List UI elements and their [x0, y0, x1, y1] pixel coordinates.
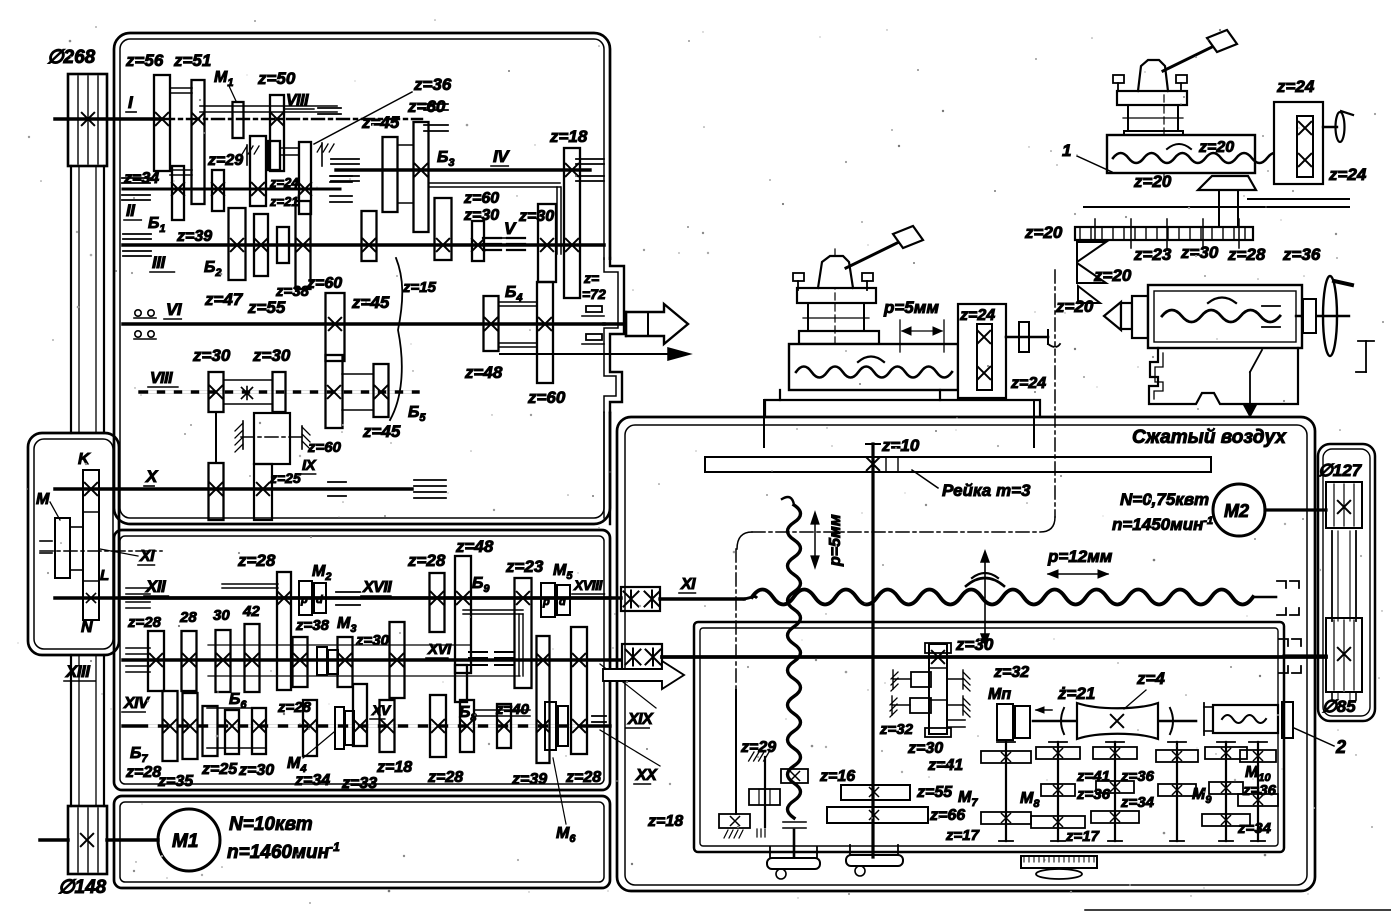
worm wheel box	[1213, 705, 1278, 733]
svg-text:z=45: z=45	[351, 293, 390, 312]
shaft XIX long	[662, 655, 1326, 659]
svg-text:d: d	[316, 594, 323, 606]
svg-text:Мп: Мп	[988, 686, 1011, 703]
gear stem 3	[1114, 742, 1116, 841]
scan speckles	[886, 29, 887, 30]
carriage 1 top plate	[797, 288, 876, 303]
svg-text:z=20: z=20	[1055, 297, 1094, 316]
svg-text:z=24: z=24	[1276, 77, 1315, 96]
tailstock screw	[1162, 310, 1280, 322]
toothed rack foot	[1021, 856, 1097, 868]
svg-text:=72: =72	[582, 286, 606, 302]
gear z=28 XIV r	[430, 695, 446, 757]
svg-text:K: K	[78, 451, 91, 468]
svg-text:d: d	[559, 596, 566, 608]
gear on V b	[472, 221, 484, 261]
flag bracket c	[1078, 286, 1100, 303]
gear z=40	[497, 704, 511, 748]
gear z=24 vertical	[977, 324, 992, 390]
leadscrew	[752, 590, 1253, 605]
gear X b	[254, 464, 272, 520]
vertical arrow through leadscrew	[984, 556, 986, 640]
mesh lines z24-z36	[281, 147, 299, 149]
gear B1 block	[212, 170, 224, 211]
carriage 1 centerline	[834, 249, 836, 346]
coupling VIII right	[342, 373, 373, 375]
vertical dash-dot to upper rack	[1054, 270, 1056, 517]
gear z=29 tall	[250, 136, 266, 206]
gear B2 block b	[254, 214, 268, 276]
svg-text:z=33: z=33	[341, 775, 377, 792]
shaft XVI	[123, 658, 621, 661]
gear z=45 on III	[362, 211, 377, 261]
vertical feed line	[735, 549, 737, 690]
svg-text:z=4: z=4	[1136, 669, 1165, 688]
svg-text:z=38: z=38	[295, 617, 330, 634]
gear z=28 slider XII	[277, 572, 291, 690]
gear X a	[209, 463, 224, 520]
shaft IV	[336, 168, 590, 171]
shaft XII	[55, 596, 610, 600]
gearbox z=24 frame	[958, 304, 1006, 398]
shaft I end marks	[424, 103, 448, 105]
svg-text:z=28: z=28	[127, 614, 162, 631]
hatch wall right	[321, 143, 323, 166]
clutch M6	[545, 702, 556, 750]
svg-text:z=32: z=32	[993, 664, 1029, 681]
gear z=28 XIV	[203, 706, 218, 756]
carriage 2 bolts	[1113, 75, 1124, 83]
gear stem M10	[1257, 742, 1259, 841]
gear z=18	[564, 148, 580, 298]
spindle nose cone	[626, 304, 688, 344]
slider rail IV	[429, 182, 560, 184]
motor M2	[1213, 484, 1265, 536]
svg-text:z=28: z=28	[565, 769, 601, 786]
apron gear frame	[694, 622, 1284, 852]
shaft VI chain symbols	[135, 310, 141, 316]
svg-text:z=45: z=45	[362, 422, 401, 441]
svg-text:n=1460мин-1: n=1460мин-1	[227, 840, 340, 863]
gear B7 b	[183, 693, 198, 759]
gear z=30 b	[273, 372, 286, 412]
shaft V gap marks	[483, 237, 501, 239]
coupling VIII	[224, 379, 272, 381]
svg-text:z=36: z=36	[1076, 786, 1111, 803]
carriage 1 screw	[796, 367, 952, 378]
gear z=36 slider	[299, 142, 311, 214]
tailstock screw end marks	[1262, 305, 1280, 307]
svg-text:z=55: z=55	[247, 298, 286, 317]
svg-text:z=29: z=29	[207, 152, 243, 169]
gear B4 a	[484, 296, 499, 351]
belt right	[1331, 531, 1333, 621]
leadscrew nut arcs	[966, 578, 1004, 586]
pulley ø148	[68, 806, 107, 874]
svg-text:z=23: z=23	[1133, 245, 1172, 264]
gear B2 block a	[229, 208, 246, 280]
svg-text:z=28: z=28	[1227, 245, 1266, 264]
svg-text:III: III	[152, 253, 166, 272]
hatch wall left	[246, 145, 248, 165]
svg-text:XVI: XVI	[427, 641, 452, 658]
svg-text:z=23: z=23	[505, 557, 544, 576]
clutch M3	[317, 647, 327, 675]
svg-text:z=30: z=30	[955, 635, 994, 654]
svg-text:z=30: z=30	[238, 762, 274, 779]
svg-text:z=30: z=30	[518, 208, 554, 225]
svg-text:VIII: VIII	[286, 92, 309, 109]
gear z=16 bar	[781, 769, 808, 783]
svg-text:z=36: z=36	[1120, 768, 1155, 785]
clutch M5	[541, 583, 555, 617]
arrow p=12	[1048, 573, 1108, 575]
svg-text:z=30: z=30	[1180, 243, 1219, 262]
gear z=30 XIV	[252, 708, 266, 754]
clutch Mp	[997, 704, 1013, 740]
svg-text:z=45: z=45	[361, 113, 400, 132]
gear 28 XVI b	[182, 631, 197, 691]
B6 coupling rails	[207, 707, 266, 709]
svg-text:z=39: z=39	[176, 228, 212, 245]
svg-text:28: 28	[179, 609, 197, 626]
gear stem 5	[1225, 742, 1227, 841]
svg-text:XIX: XIX	[627, 711, 654, 728]
svg-text:z=18: z=18	[549, 127, 588, 146]
svg-text:z=28: z=28	[237, 551, 276, 570]
stack caps	[925, 643, 951, 653]
air pipe hook	[1358, 340, 1374, 342]
svg-text:IX: IX	[302, 457, 317, 474]
arrow into Mp	[1036, 709, 1052, 711]
svg-text:M: M	[36, 491, 50, 508]
carriage 2 handle grip	[1207, 30, 1237, 52]
belt stub below	[1331, 692, 1333, 700]
svg-text:IV: IV	[493, 147, 510, 166]
svg-text:z=28: z=28	[427, 769, 463, 786]
svg-text:VIII: VIII	[150, 370, 173, 387]
rail B8	[474, 709, 530, 711]
carriage 1 tool post	[818, 256, 853, 288]
shaft III	[123, 243, 604, 247]
bevel bracket left b	[910, 698, 931, 713]
svg-text:z=41: z=41	[927, 757, 963, 774]
gear 30 XVI	[216, 630, 231, 692]
svg-text:z=38: z=38	[275, 283, 310, 300]
gear stem M8 left	[1005, 742, 1007, 841]
gear z=18 XIV	[380, 700, 395, 752]
svg-text:N=0,75квт: N=0,75квт	[1120, 490, 1209, 509]
carriage 1 handle grip	[893, 226, 923, 248]
gear B8	[460, 700, 474, 752]
svg-text:z=20: z=20	[1093, 266, 1132, 285]
carriage 1 bolts	[793, 273, 804, 281]
svg-text:z=: z=	[583, 270, 599, 286]
carriage 2 centerline	[1163, 95, 1165, 178]
arrow p=5 vertical	[814, 514, 816, 566]
svg-text:z=30: z=30	[355, 632, 390, 649]
shaft stub to M1	[40, 838, 68, 842]
carriage 1 mid plate	[799, 331, 879, 344]
shaft VI	[123, 322, 604, 326]
svg-text:1: 1	[1062, 141, 1071, 160]
shaft XIV	[123, 724, 610, 727]
carriage 1 body	[789, 344, 958, 390]
belt to K-box	[70, 166, 72, 433]
svg-text:z=25: z=25	[269, 470, 301, 486]
spindle bearing marks	[586, 306, 602, 312]
svg-text:z=34: z=34	[123, 170, 159, 187]
rack pinion ticks	[885, 457, 887, 472]
svg-text:z=30: z=30	[463, 207, 499, 224]
svg-text:∅148: ∅148	[58, 877, 107, 898]
gear z=28 XVI a	[148, 631, 164, 691]
gear z=28 XVII	[430, 573, 445, 632]
svg-text:z=24: z=24	[1328, 165, 1367, 184]
vertical leadscrew p=5	[788, 505, 801, 818]
gear M	[55, 518, 70, 578]
svg-text:z=30: z=30	[192, 346, 231, 365]
rack bar	[705, 457, 1211, 472]
gear XVI right a	[455, 665, 467, 702]
flag bracket a	[1077, 242, 1106, 262]
svg-text:M1: M1	[172, 831, 198, 852]
tailstock center cone	[1104, 302, 1121, 330]
svg-text:z=32: z=32	[879, 721, 914, 738]
gear z=55 bar	[841, 785, 910, 800]
gear K-N block	[83, 470, 99, 620]
svg-text:z=24: z=24	[269, 175, 299, 190]
gear z=47	[296, 201, 311, 289]
gear z=34	[172, 166, 184, 220]
svg-text:XVII: XVII	[362, 579, 392, 596]
tailstock body	[1148, 285, 1302, 348]
gear z=24 small	[268, 141, 280, 170]
right pulley frame	[1318, 444, 1375, 721]
svg-text:z=24: z=24	[1010, 375, 1046, 392]
svg-text:z=16: z=16	[819, 768, 855, 785]
svg-text:z=30: z=30	[907, 740, 943, 757]
svg-text:2: 2	[1335, 737, 1346, 757]
svg-text:XI: XI	[680, 576, 696, 593]
gear z=50	[270, 95, 284, 171]
shaft I	[55, 117, 162, 121]
svg-text:XIII: XIII	[65, 662, 91, 681]
shaft M2 to pulley	[1265, 508, 1326, 511]
svg-text:z=28: z=28	[277, 699, 312, 716]
svg-text:z=34: z=34	[1237, 820, 1272, 837]
gear z=23	[515, 578, 532, 688]
svg-text:L: L	[100, 567, 109, 584]
carriage 2 posts	[1127, 105, 1129, 131]
shaft XI centerline	[40, 550, 162, 552]
svg-text:z=20: z=20	[1198, 139, 1234, 156]
gear z=60 IX block	[254, 413, 290, 464]
halfnut marks upper	[1277, 581, 1286, 588]
carriage 2 body	[1107, 135, 1255, 173]
svg-text:р: р	[542, 596, 550, 608]
XIV right marks	[592, 715, 606, 717]
shaft into pulley ø85	[1284, 654, 1326, 657]
left cluster z=29	[764, 757, 766, 827]
coupling z45-z60	[398, 144, 413, 146]
shaft VIII end marks	[318, 107, 341, 109]
svg-text:N=10квт: N=10квт	[229, 814, 313, 835]
shift rail XII right	[463, 609, 523, 611]
hollow arrow	[603, 661, 684, 689]
carriage 1 clamp lines	[763, 400, 765, 447]
carriage 1 posts	[807, 303, 809, 331]
vertical shaft of rack pinion	[871, 444, 874, 857]
svg-text:p=12мм: p=12мм	[1047, 547, 1113, 566]
gear z=66 bar	[827, 807, 928, 823]
svg-text:VI: VI	[166, 300, 183, 319]
brace	[390, 258, 402, 420]
svg-text:z=34: z=34	[1120, 794, 1155, 811]
gear z=30 XVI	[338, 637, 353, 687]
svg-text:ż=21: ż=21	[1057, 684, 1095, 703]
wavy shaft stub	[793, 830, 796, 857]
gear 42 XVI	[245, 624, 260, 692]
carriage 2 top plate	[1117, 91, 1187, 105]
clutch M4	[335, 707, 344, 749]
svg-text:z=56: z=56	[125, 51, 164, 70]
reversing box frame	[28, 433, 119, 655]
gear z=56	[154, 75, 170, 171]
svg-text:z=39: z=39	[511, 771, 547, 788]
shaft VIII	[140, 390, 418, 393]
carriage 2 clamp lines	[1218, 190, 1220, 227]
gear z=51 block	[192, 80, 205, 204]
shaft II	[123, 188, 340, 191]
foot rack shaft	[846, 855, 903, 866]
feed gearbox frame	[114, 530, 610, 790]
svg-text:z=28: z=28	[125, 764, 161, 781]
M gear left marks	[40, 540, 52, 542]
carriage 1 saddle	[765, 390, 780, 417]
svg-text:z=18: z=18	[647, 813, 683, 830]
svg-text:z=60: z=60	[527, 388, 566, 407]
bed bottom right line	[1085, 909, 1391, 911]
foot wavy shaft	[767, 858, 820, 869]
gear z=60 on IV	[414, 122, 429, 232]
svg-text:z=35: z=35	[157, 773, 194, 790]
svg-text:z=40: z=40	[495, 701, 530, 718]
shaft X mid marks	[328, 481, 346, 483]
gear XVI mid	[390, 622, 405, 698]
gearbox z=24 frame 2	[1274, 102, 1323, 184]
carriage 1 nut arc	[858, 357, 884, 363]
worm z=4	[1077, 703, 1158, 739]
svg-text:р: р	[300, 594, 308, 606]
svg-text:z=36: z=36	[1282, 245, 1321, 264]
clutch box XIX	[622, 644, 662, 671]
svg-text:z=20: z=20	[1024, 223, 1063, 242]
shaft X end marks	[414, 479, 446, 481]
svg-text:z=24: z=24	[959, 307, 995, 324]
gear z=38 XVI	[293, 637, 308, 687]
gear z=60 on VI	[326, 293, 345, 361]
svg-text:z=25: z=25	[201, 761, 238, 778]
gear M1 pinion	[233, 102, 244, 138]
svg-text:Сжатый воздух: Сжатый воздух	[1132, 427, 1287, 448]
spindle arrow	[500, 353, 668, 355]
shaft XII end marks	[126, 587, 150, 589]
coupling z56-z51	[170, 87, 192, 89]
svg-text:z=41: z=41	[1076, 768, 1110, 785]
bevel bracket left a	[911, 672, 931, 687]
motor M1	[158, 809, 220, 871]
svg-text:XX: XX	[635, 767, 658, 784]
gear z=30 a	[209, 372, 224, 412]
svg-text:n=1450мин-1: n=1450мин-1	[1112, 515, 1213, 534]
coupling B4	[499, 301, 537, 303]
svg-text:z=51: z=51	[173, 51, 211, 70]
slider rail to z28	[222, 583, 278, 585]
svg-text:z=48: z=48	[464, 363, 503, 382]
svg-text:z=18: z=18	[376, 759, 412, 776]
carriage area frame	[617, 417, 1315, 891]
headstock gearbox frame	[114, 33, 610, 524]
tailstock quill shaft	[1296, 315, 1349, 317]
svg-text:z=10: z=10	[881, 436, 920, 455]
svg-text:∅85: ∅85	[1322, 697, 1356, 716]
carriage 2 wedge	[1198, 176, 1256, 190]
svg-text:30: 30	[213, 607, 230, 624]
svg-text:z=17: z=17	[945, 827, 980, 844]
shaft X	[55, 487, 412, 491]
stack side marks	[947, 719, 965, 721]
spindle housing bump	[601, 260, 631, 412]
svg-text:XV: XV	[371, 702, 392, 718]
gear z=39 tall	[537, 636, 550, 763]
tailstock nut arc	[1208, 298, 1236, 304]
svg-text:Рейка m=3: Рейка m=3	[942, 481, 1031, 500]
bevel bracket right hatches	[962, 670, 964, 689]
svg-text:XI: XI	[139, 548, 155, 565]
worm shaft	[1033, 720, 1196, 723]
svg-text:z=21: z=21	[269, 194, 299, 209]
upper rack bar	[1075, 227, 1253, 240]
svg-text:z=48: z=48	[455, 537, 494, 556]
gear z=45 on IV	[383, 137, 398, 212]
shaft XVI gap marks	[469, 651, 487, 653]
svg-text:M2: M2	[1224, 501, 1249, 521]
wavy shaft end marks	[783, 821, 806, 823]
gear on V a	[435, 198, 452, 260]
carriage 2 nut arc	[1167, 144, 1191, 149]
gear stem 2	[1057, 742, 1059, 841]
svg-text:z=66: z=66	[929, 807, 965, 824]
svg-text:z=30: z=30	[252, 346, 291, 365]
pulley ø85	[1326, 618, 1362, 692]
carriage 2 mid plate	[1124, 131, 1183, 142]
gear z=24 vertical 2	[1297, 116, 1313, 177]
svg-text:z=28: z=28	[407, 551, 446, 570]
svg-text:z=29: z=29	[740, 739, 776, 756]
bed line upper right	[1084, 206, 1349, 208]
svg-text:42: 42	[242, 603, 260, 620]
gear z=38	[277, 227, 289, 263]
coupling M to K gear	[70, 526, 83, 528]
belt lower segment	[70, 655, 72, 806]
clutch M2	[299, 581, 312, 615]
gear z=30 apron	[929, 644, 947, 734]
shaft IX centerline	[241, 436, 305, 438]
dash marks after M2	[336, 591, 360, 593]
shaft II end marks right	[330, 175, 352, 177]
svg-text:z=47: z=47	[204, 290, 244, 309]
